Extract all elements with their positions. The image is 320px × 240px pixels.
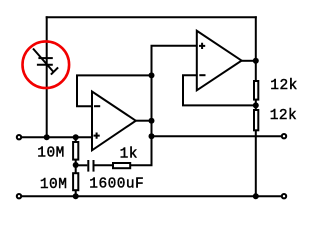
- op-amp U1 body: [92, 92, 136, 151]
- node: U1 output joins mid column: [149, 118, 155, 124]
- svg-text:10M: 10M: [40, 177, 67, 193]
- capacitor C2 left plate: [87, 160, 89, 172]
- wire: U1 feedback loop (output column to inverting input): [77, 75, 152, 106]
- op-amp U1 minus sign (inverting input): [94, 105, 100, 107]
- node: feedback/divider junction on right column: [253, 102, 259, 108]
- resistor R3 1k body: [113, 163, 130, 168]
- node: R1 top joins input row: [73, 134, 79, 140]
- svg-text:12k: 12k: [270, 108, 297, 124]
- resistor R4 12k body: [254, 81, 258, 100]
- svg-text:1k: 1k: [120, 147, 138, 163]
- op-amp U1 plus sign (non-inverting input): [94, 133, 100, 139]
- wire: output row from mid column to right terminal: [152, 135, 282, 137]
- wire: R1/R2 column segments: [75, 137, 77, 196]
- resistor R2 10M body: [73, 173, 78, 190]
- wire: mid column to U2 non-inverting input: [151, 45, 198, 47]
- wire: top rail: [46, 16, 257, 18]
- node: R1/R2 midpoint to C2: [73, 162, 79, 168]
- wire: U1 output to mid column: [136, 120, 152, 122]
- node: R2 bottom joins bottom rail: [73, 193, 79, 199]
- wire: U2 feedback loop (inverting input to divider node): [183, 75, 256, 105]
- capacitor C1 trimmer arrow diagonal: [33, 49, 53, 72]
- op-amp U2 body: [197, 31, 242, 91]
- wire: bottom rail: [22, 195, 281, 197]
- capacitor C1 trimmer arrow tick: [51, 67, 58, 74]
- op-amp U2 plus sign (non-inverting input): [199, 43, 205, 49]
- wire: right column vertical: [255, 16, 257, 196]
- capacitor C1 (trimmer) bottom plate: [37, 64, 53, 66]
- capacitor C1 (trimmer) top plate: [38, 57, 52, 59]
- input terminal left bottom: [17, 194, 21, 198]
- node: feedback joins mid column: [149, 72, 155, 78]
- node: U2 output joins right column: [253, 58, 259, 64]
- red highlight circle around C1: [23, 41, 70, 88]
- resistor R1 10M body: [73, 142, 78, 160]
- node: C1 branch joins input row: [44, 134, 50, 140]
- output terminal right bottom: [282, 194, 286, 198]
- op-amp U2 minus sign (inverting input): [199, 74, 205, 76]
- wire: C2 right plate to R3: [95, 164, 113, 166]
- input terminal left top: [17, 135, 21, 139]
- wire: R3 to mid column corner: [131, 164, 153, 166]
- svg-text:12k: 12k: [270, 78, 297, 94]
- svg-text:1600uF: 1600uF: [89, 177, 144, 193]
- node: right column joins bottom rail: [253, 193, 259, 199]
- wire: mid column vertical: [151, 46, 153, 166]
- output terminal right top: [282, 134, 286, 138]
- wire: left branch vertical from top rail through C1 down to input node: [46, 16, 48, 137]
- wire: left input row to U1 non-inverting input: [22, 136, 93, 138]
- resistor R5 12k body: [254, 110, 258, 130]
- wire: U2 output to right column: [242, 60, 256, 62]
- svg-text:10M: 10M: [37, 146, 64, 162]
- capacitor C2 right plate: [93, 160, 95, 172]
- node: mid column joins output row: [149, 133, 155, 139]
- wire: divider midpoint to C2 left plate: [76, 164, 88, 166]
